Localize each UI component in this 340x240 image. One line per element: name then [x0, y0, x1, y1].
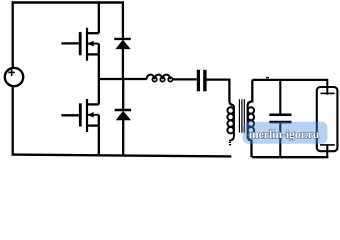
wire top rail — [12, 1, 125, 4]
transformer T1 primary winding — [227, 105, 233, 136]
diode D1 triangle — [116, 40, 130, 48]
wire Q1 body-source tie and down to mid node — [98, 44, 100, 79]
diode D1 cathode bar — [114, 38, 131, 40]
junction tick — [266, 77, 269, 79]
lamp top filament bar — [321, 92, 335, 94]
transistor Q2 body stub — [88, 114, 99, 116]
transistor Q1 source stub — [87, 53, 99, 55]
capacitor C2 top lead — [279, 80, 281, 114]
wire right top rail — [252, 79, 327, 81]
transistor Q2 body arrow — [88, 113, 93, 118]
capacitor C2 bottom plate — [269, 121, 291, 124]
diode D2 lead upper — [122, 79, 124, 109]
transistor Q2 channel — [86, 99, 88, 132]
transistor Q1 body arrow — [88, 41, 93, 46]
wire secondary top lead — [248, 80, 253, 106]
watermark band — [243, 122, 328, 144]
transistor Q1 body stub — [88, 43, 99, 45]
wire left lower — [12, 87, 14, 155]
lamp tube — [317, 87, 338, 151]
wire left upper — [12, 1, 14, 67]
diode D2 lead lower — [122, 120, 124, 157]
wire inductor to capacitor — [172, 78, 196, 80]
capacitor C2 bottom lead — [279, 123, 281, 157]
transistor Q2 gate lead — [61, 114, 78, 116]
wire Q2 body-source tie and down to rail — [98, 115, 100, 156]
diode D2 cathode bar — [115, 109, 132, 111]
inductor L1 — [147, 75, 173, 82]
primary lead dots — [229, 142, 231, 146]
wire secondary bottom lead — [248, 136, 252, 157]
wire mid node horizontal — [99, 78, 147, 80]
wire bottom rail — [12, 155, 232, 157]
transistor Q2 drain stub — [87, 103, 99, 105]
capacitor C1 right plate — [203, 70, 206, 92]
transformer T1 secondary winding — [248, 105, 254, 136]
transistor Q1 gate lead — [61, 42, 78, 44]
transistor Q1 drain stub — [87, 32, 99, 34]
wire right bottom rail — [252, 156, 328, 158]
capacitor C2 top plate — [269, 114, 291, 117]
wire primary bottom lead — [230, 136, 234, 141]
transformer T1 core — [239, 99, 244, 132]
wire primary top lead — [229, 80, 234, 106]
svg-text:merlin-igor.ru: merlin-igor.ru — [249, 127, 320, 141]
transistor Q2 gate bar — [79, 103, 82, 126]
diode D1 lead lower — [122, 49, 124, 80]
transistor Q1 channel — [86, 28, 88, 61]
lamp bottom filament bar — [320, 144, 335, 146]
capacitor C1 left plate — [197, 70, 200, 92]
wire capacitor to transformer — [207, 78, 231, 80]
transistor Q1 gate bar — [79, 32, 82, 55]
wire Q2 drain vertical — [98, 79, 100, 104]
source V1 — [5, 68, 23, 86]
diode D1 lead upper — [122, 3, 124, 38]
lamp top electrode lead — [326, 79, 328, 95]
lamp bottom electrode lead — [326, 145, 328, 158]
diode D2 triangle — [117, 111, 131, 119]
transistor Q2 source stub — [87, 124, 99, 126]
wire Q1 drain vertical — [98, 3, 100, 34]
